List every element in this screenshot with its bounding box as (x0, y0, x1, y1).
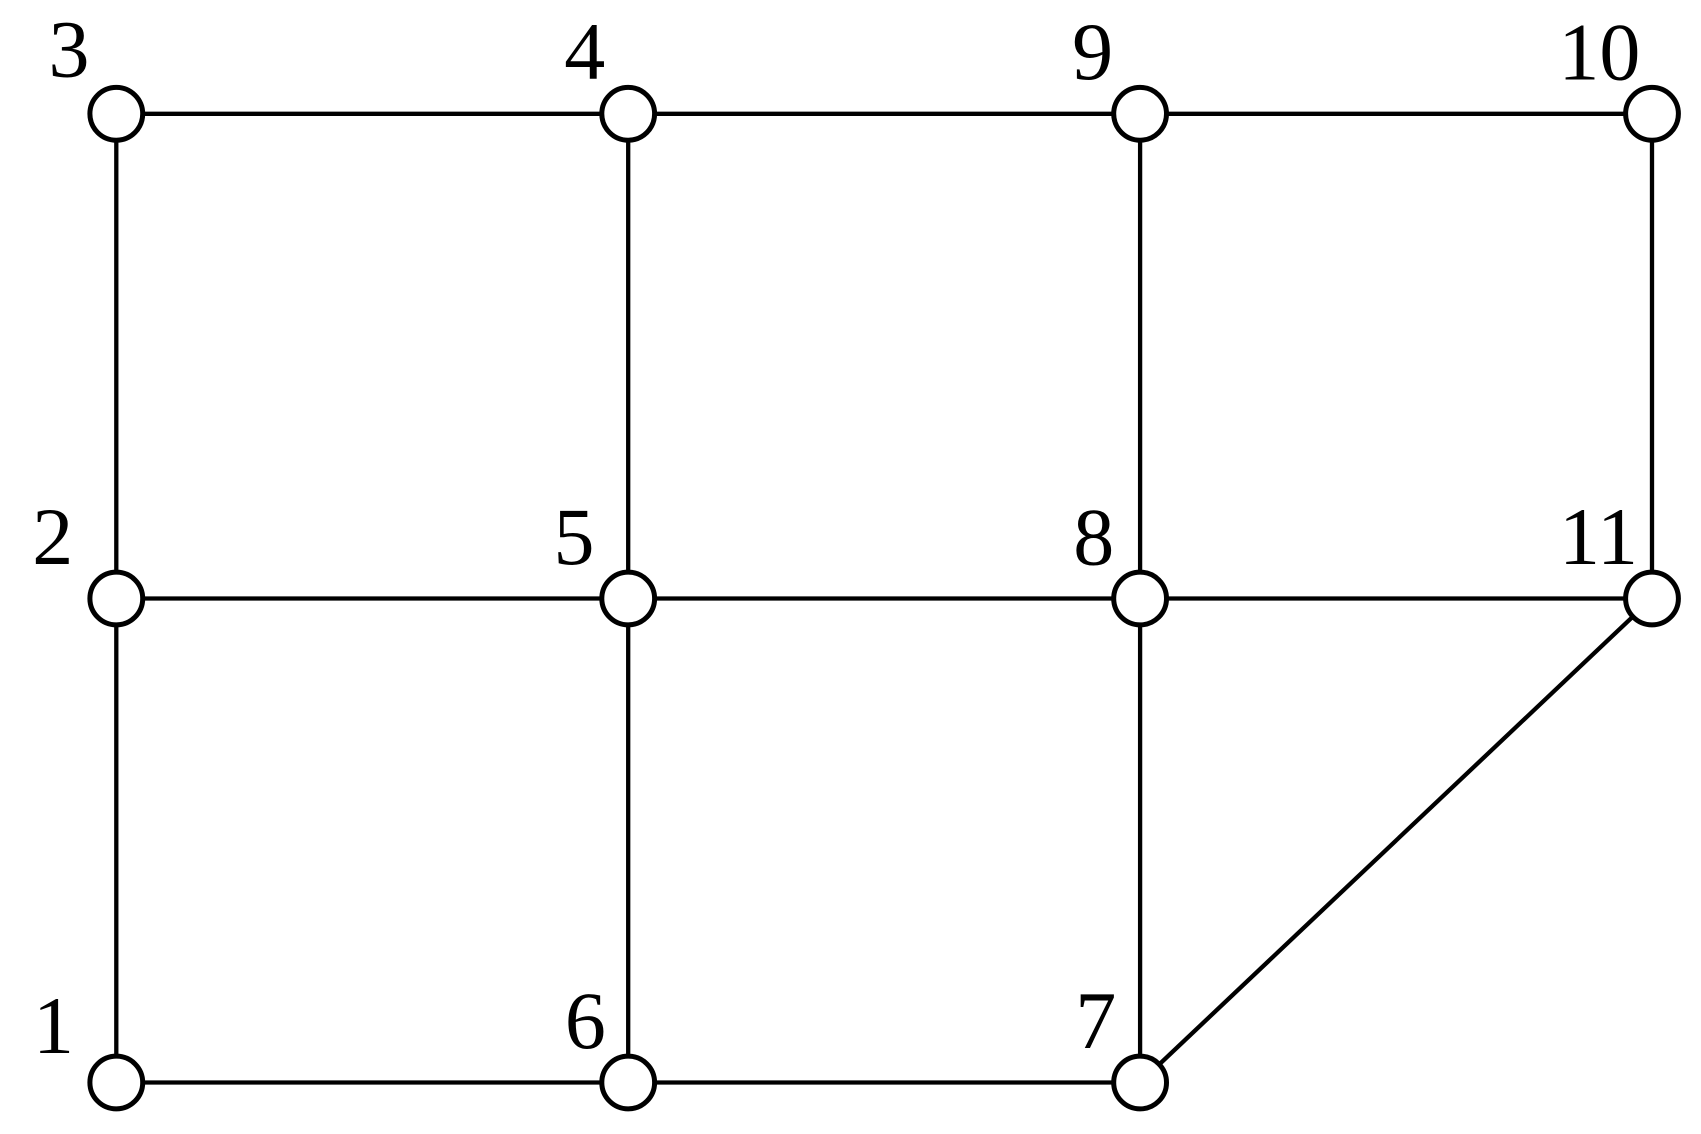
node 8 (1114, 572, 1167, 625)
svg-text:1: 1 (33, 980, 74, 1071)
wire 2-5 (116, 596, 628, 600)
node 4 (602, 87, 655, 140)
svg-text:5: 5 (554, 491, 595, 582)
wire 4-5 (626, 114, 630, 599)
wire 9-10 (1140, 112, 1652, 116)
node 11 (1626, 572, 1679, 625)
svg-text:2: 2 (32, 491, 73, 582)
node 7 (1114, 1056, 1167, 1109)
wire 10-11 (1650, 114, 1654, 599)
wire 9-8 (1138, 114, 1142, 599)
svg-text:7: 7 (1075, 975, 1116, 1066)
svg-text:11: 11 (1559, 491, 1638, 582)
wire 8-11 (1140, 596, 1652, 600)
wire 3-4 (116, 112, 628, 116)
wire 6-7 (628, 1080, 1140, 1084)
node 9 (1114, 87, 1167, 140)
wire 1-6 (116, 1080, 628, 1084)
svg-text:3: 3 (49, 4, 90, 95)
svg-text:9: 9 (1072, 6, 1113, 97)
node 3 (90, 87, 143, 140)
node 5 (602, 572, 655, 625)
wire 5-8 (628, 596, 1140, 600)
node 6 (602, 1056, 655, 1109)
svg-text:4: 4 (564, 6, 605, 97)
node 1 (90, 1056, 143, 1109)
svg-text:8: 8 (1073, 492, 1114, 583)
wire 8-7 (1138, 599, 1142, 1083)
svg-text:10: 10 (1558, 7, 1640, 98)
node 10 (1626, 87, 1679, 140)
node 2 (90, 572, 143, 625)
wire 2-3 (114, 114, 118, 599)
svg-text:6: 6 (565, 975, 606, 1066)
wire 4-9 (628, 112, 1140, 116)
wire 5-6 (626, 599, 630, 1083)
wire 1-2 (114, 599, 118, 1083)
wire 7-11 (1140, 599, 1652, 1083)
